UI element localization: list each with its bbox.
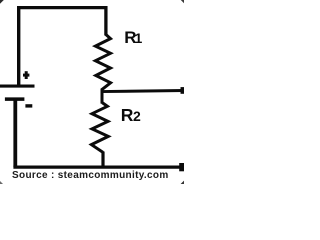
node stub between R1 and R2 xyxy=(101,89,104,104)
battery V1 minus sign xyxy=(25,104,32,107)
svg-text:Source : steamcommunity.com: Source : steamcommunity.com xyxy=(12,170,169,181)
wire R2 to bottom xyxy=(101,152,104,168)
svg-text:R1: R1 xyxy=(124,28,142,47)
decorative corner artifacts (no labels) xyxy=(0,0,184,184)
svg-text:R2: R2 xyxy=(121,105,141,125)
terminal middle right xyxy=(181,87,185,94)
resistor R2 xyxy=(91,103,108,153)
battery V1 positive plate xyxy=(0,85,35,88)
wire left lower xyxy=(13,98,17,167)
resistor R1 xyxy=(95,35,110,90)
terminal bottom right xyxy=(179,163,184,171)
wire right upper xyxy=(104,6,107,36)
wire top xyxy=(17,6,108,9)
wire bottom xyxy=(13,166,184,169)
battery V1 plus sign xyxy=(23,71,29,79)
wire middle output xyxy=(102,91,185,92)
battery V1 negative plate xyxy=(5,97,25,101)
wire left upper xyxy=(17,6,20,86)
